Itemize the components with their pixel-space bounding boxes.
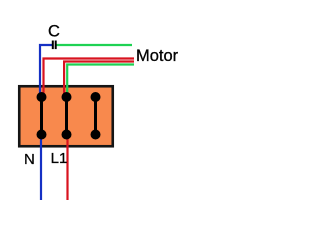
terminal 3 link bar <box>94 97 97 135</box>
svg-text:Motor: Motor <box>136 47 179 65</box>
wire: red from terminal N up and right to Motor <box>44 59 135 98</box>
svg-text:C: C <box>48 22 60 40</box>
terminal L1 link bar <box>65 97 68 135</box>
terminal N link bar <box>40 97 43 135</box>
wire: blue neutral leaving terminal N to bottom edge <box>40 134 42 200</box>
svg-text:L1: L1 <box>51 150 68 167</box>
terminal 3 top contact <box>91 92 101 102</box>
wire: red from terminal L1 up and right to Motor <box>64 62 134 98</box>
terminal N bottom contact <box>37 130 47 140</box>
terminal 3 bottom contact <box>91 130 101 140</box>
terminal L1 bottom contact <box>62 130 72 140</box>
terminal L1 top contact <box>62 92 72 102</box>
terminal N top contact <box>37 92 47 102</box>
wire: green from terminal L1 up and right to Motor <box>67 65 134 98</box>
svg-text:N: N <box>24 151 35 168</box>
wire: blue neutral from capacitor C down to terminal N <box>40 45 53 97</box>
wire: green from capacitor C right plate to Motor <box>57 44 133 46</box>
capacitor C plates <box>52 41 54 50</box>
wire: red line leaving terminal L1 to bottom edge <box>66 134 68 200</box>
terminal block TB1 <box>19 86 113 146</box>
